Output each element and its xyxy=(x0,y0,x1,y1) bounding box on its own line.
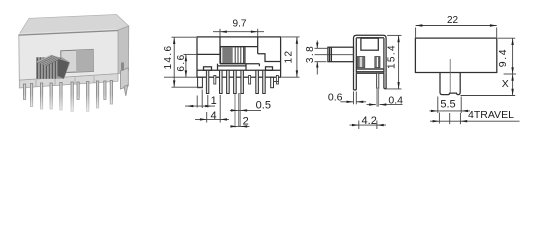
svg-text:6.6: 6.6 xyxy=(176,53,187,71)
svg-text:1: 1 xyxy=(211,95,217,107)
svg-text:4.2: 4.2 xyxy=(362,115,377,127)
svg-text:12: 12 xyxy=(283,50,294,64)
svg-text:4TRAVEL: 4TRAVEL xyxy=(468,109,514,121)
svg-text:3.8: 3.8 xyxy=(305,45,316,63)
svg-text:X: X xyxy=(502,78,509,90)
svg-text:9.7: 9.7 xyxy=(233,19,247,30)
svg-text:22: 22 xyxy=(447,15,459,26)
svg-text:4: 4 xyxy=(211,110,217,122)
svg-text:15.4: 15.4 xyxy=(387,44,398,69)
svg-text:0.5: 0.5 xyxy=(256,100,271,112)
svg-text:0.6: 0.6 xyxy=(328,92,343,104)
svg-text:0.4: 0.4 xyxy=(388,94,403,106)
svg-text:9.4: 9.4 xyxy=(497,48,509,67)
svg-text:5.5: 5.5 xyxy=(440,99,455,111)
svg-text:14.6: 14.6 xyxy=(163,44,174,69)
svg-text:2: 2 xyxy=(243,116,249,128)
